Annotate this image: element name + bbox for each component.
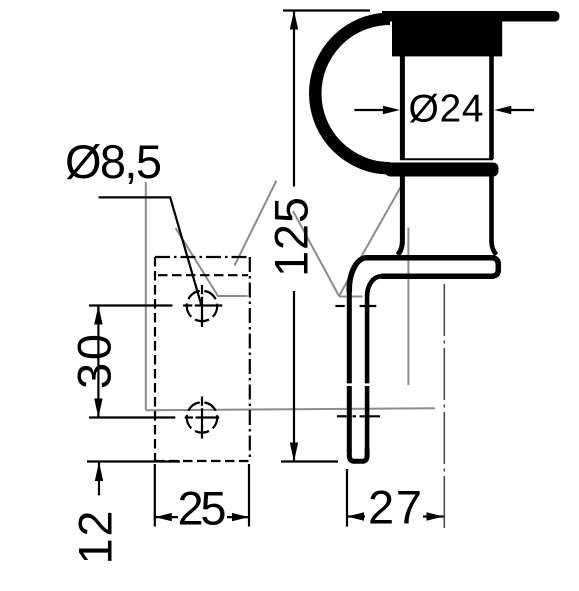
dimension D24 right arrow line [511, 109, 534, 111]
rail cap block [392, 14, 502, 56]
bracket leg inner wall lower [365, 386, 370, 451]
leg hole H2 tick right [360, 415, 381, 417]
tube centerline (dash-dot) [443, 284, 445, 528]
dimension 27 arrow right [427, 512, 444, 520]
hole H2 extension line [89, 416, 175, 418]
leader line from label to hole H1 [99, 197, 202, 304]
V pointer horizontal tick (gray) [339, 296, 363, 298]
dimension D24 left arrow [383, 106, 400, 114]
leader elbow to top hole (gray) [176, 228, 248, 296]
plate bottom extension line for 12 [87, 460, 180, 462]
plate hidden outline right edge (dash-dot) [249, 257, 251, 461]
tube left wall lower [398, 176, 403, 255]
leg hole H2 tick dot [353, 415, 357, 417]
svg-text:Ø8,5: Ø8,5 [65, 135, 162, 188]
plate bend line (dashed) [158, 274, 248, 276]
bracket leg inner wall upper [365, 295, 370, 383]
plate hidden outline left edge (dashed) [154, 257, 156, 461]
leg hole H1 tick left [335, 305, 344, 307]
leg hole H1 tick right [360, 305, 377, 307]
svg-text:25: 25 [178, 482, 227, 535]
leg hole H2 tick left [337, 415, 347, 417]
dimension 25 line left [155, 516, 178, 518]
projection line vertical right (gray) [407, 228, 409, 386]
hook arc [315, 19, 390, 169]
short diagonal pointer (gray) [235, 181, 277, 266]
hole H1 dashed circle [187, 291, 217, 321]
tube right wall lower [492, 176, 497, 255]
hole H2 dashed circle [187, 402, 217, 432]
dimension 25 right extension line [248, 464, 250, 527]
dimension 12 arrow up [95, 462, 103, 481]
dimension D24 right arrow [494, 106, 511, 114]
bracket leg outer wall lower [347, 386, 352, 451]
dimension 12 line [98, 462, 100, 495]
hole H2 crosshair horizontal [185, 416, 220, 418]
dimension 125 arrow down [290, 443, 298, 462]
handrail bar [382, 11, 560, 22]
hole H2 crosshair vertical [201, 397, 203, 439]
V pointer left arm (gray) [293, 211, 339, 296]
V pointer right arm (gray) [339, 187, 401, 297]
dimension 125 line upper segment [293, 11, 295, 187]
clamp band top line [400, 158, 493, 160]
dimension 125 line lower segment [293, 291, 295, 462]
hole H1 extension line [89, 304, 173, 306]
tube left wall upper [400, 56, 405, 159]
svg-text:Ø24: Ø24 [409, 88, 484, 131]
dimension 125 arrow up [290, 11, 298, 30]
dimension 27 left extension line [346, 469, 348, 527]
projection line vertical left (gray) [145, 182, 147, 410]
projection line horizontal bottom (gray) [146, 408, 435, 410]
dimension 27 arrow left [347, 512, 364, 520]
dimension 30 arrow up [94, 306, 102, 325]
bracket leg outer wall upper [347, 291, 352, 383]
dimension 125 top extension line [283, 9, 370, 11]
hole H1 crosshair vertical [201, 285, 203, 327]
dimension D24 left arrow line [354, 109, 384, 111]
bracket arm top edge with right cap [366, 258, 498, 277]
dimension 25 left extension line [154, 464, 156, 527]
dimension 27 line right [423, 515, 444, 517]
dimension 25 arrow right [232, 513, 249, 521]
clamp band [385, 163, 499, 177]
dimension 25 arrow left [155, 513, 172, 521]
bracket outer bend [349, 258, 367, 292]
plate hidden outline bottom edge (dashed) [155, 460, 250, 462]
plate hidden outline top edge (dash-dot) [155, 256, 250, 258]
dimension 25 line right [227, 516, 249, 518]
dimension 30 arrow down [94, 399, 102, 418]
dimension 30 line [97, 306, 99, 418]
svg-text:125: 125 [265, 197, 318, 277]
dimension 125 bottom extension line [281, 460, 338, 462]
bracket inner bend [367, 276, 381, 296]
svg-text:27: 27 [368, 481, 422, 534]
bracket leg bottom cap [349, 449, 367, 461]
svg-text:12: 12 [69, 511, 122, 565]
tube right wall upper [489, 56, 494, 159]
hole H1 crosshair horizontal [183, 304, 222, 306]
dimension 27 line left [347, 515, 365, 517]
